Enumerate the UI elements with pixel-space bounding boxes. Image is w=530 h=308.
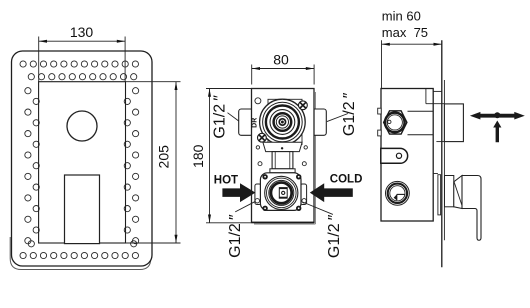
- flange corner screws: [262, 174, 301, 211]
- svg-text:G1/2 ″: G1/2 ″: [326, 214, 343, 258]
- pipe: [272, 152, 293, 169]
- left tab G1/2: [239, 109, 253, 135]
- center circle: [67, 111, 97, 141]
- COLD arrow: [310, 183, 353, 202]
- svg-text:80: 80: [273, 52, 289, 68]
- hex nut fitting: [378, 108, 382, 114]
- slot: [381, 148, 408, 163]
- plate shadow outline: [10, 233, 151, 270]
- vertical arrow: [493, 121, 501, 143]
- body shadow: [254, 223, 315, 225]
- dim 180 extension lines: [206, 89, 252, 223]
- plate body: [12, 51, 153, 266]
- right tab G1/2: [312, 109, 327, 135]
- handle lever: [462, 176, 481, 241]
- svg-text:DR: DR: [252, 118, 259, 128]
- holes: [20, 61, 139, 259]
- screw top-right: [299, 101, 308, 110]
- cartridge U1 rings: [260, 99, 306, 145]
- svg-text:COLD: COLD: [330, 174, 363, 186]
- dim 80: [252, 65, 314, 85]
- svg-text:G1/2 ″: G1/2 ″: [212, 95, 229, 139]
- HOT arrow: [222, 183, 255, 202]
- svg-text:HOT: HOT: [214, 174, 238, 186]
- svg-text:G1/2 ″: G1/2 ″: [227, 214, 244, 258]
- interior steps: [425, 89, 427, 104]
- svg-text:min 60: min 60: [382, 9, 421, 24]
- dim 205: [126, 82, 181, 243]
- dim 75: [382, 40, 442, 88]
- screw bottom-left: [258, 133, 267, 142]
- handle adapter cone: [445, 176, 454, 207]
- body: [381, 89, 433, 222]
- box on wall: [444, 104, 463, 142]
- svg-text:205: 205: [156, 145, 172, 169]
- lower valve flange: [260, 173, 301, 211]
- adjustment double arrow: [470, 112, 525, 120]
- wall lines: [441, 40, 443, 267]
- lower fitting: [386, 181, 410, 205]
- mount hole top-left: [255, 98, 261, 104]
- inner recess rectangle: [39, 82, 126, 243]
- small body holes: [256, 146, 259, 149]
- svg-text:180: 180: [190, 144, 206, 168]
- bracket below cartridge: [263, 142, 302, 151]
- center square: [279, 188, 287, 199]
- dim 130: [39, 37, 125, 82]
- escutcheon: [433, 173, 438, 175]
- svg-text:130: 130: [70, 24, 94, 40]
- lower box: [65, 175, 100, 244]
- valve body: [252, 89, 315, 223]
- recess panel: [268, 99, 302, 144]
- flange rings: [265, 176, 298, 209]
- svg-text:max 75: max 75: [382, 25, 428, 40]
- svg-text:G1/2 ″: G1/2 ″: [341, 92, 358, 136]
- pipe lines to hex: [408, 110, 434, 112]
- ears: [255, 184, 261, 205]
